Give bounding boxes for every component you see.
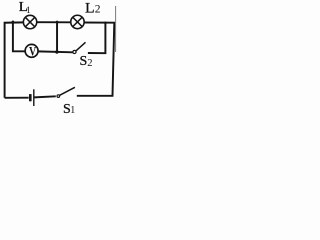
lamp L1 — [23, 15, 36, 28]
svg-text:S: S — [80, 54, 88, 69]
wire: middle vertical from top wire to junction — [56, 22, 58, 52]
wire: top middle between L1 and L2 — [36, 21, 71, 23]
battery cell — [30, 89, 34, 106]
lamp L2 — [71, 15, 84, 28]
node B junction dot (mid vertical on top wire) — [56, 21, 59, 24]
wire: voltmeter right to S2 contact — [38, 50, 73, 53]
label S1 — [63, 102, 75, 117]
svg-text:V: V — [29, 43, 37, 58]
switch S1 — [57, 87, 75, 97]
svg-text:1: 1 — [26, 6, 31, 16]
voltmeter V — [25, 43, 38, 58]
svg-text:2: 2 — [87, 58, 92, 69]
label L2 — [85, 0, 101, 16]
label S2 — [80, 54, 93, 69]
wire: bottom left to battery — [5, 97, 29, 99]
svg-text:L: L — [85, 0, 95, 16]
node C junction dot (voltmeter row) — [55, 50, 58, 53]
svg-text:2: 2 — [95, 4, 101, 16]
wire: voltmeter branch from top wire down and right — [13, 22, 26, 51]
node D junction dot (S2 branch on top wire) — [104, 22, 107, 25]
node A junction dot (voltmeter branch on top wire) — [12, 21, 15, 24]
wire: top right from L2 to corner, down right side, bottom right to S1 — [77, 23, 115, 96]
scan ghost line right edge — [115, 6, 117, 52]
label L1 — [19, 0, 31, 16]
svg-text:1: 1 — [70, 105, 75, 116]
switch S2 — [73, 42, 86, 53]
wire: S2 right contact up to top wire — [88, 23, 106, 54]
background — [0, 0, 117, 117]
wire: battery to switch S1 — [34, 96, 56, 97]
wire: left side + top-left segment to L1 — [5, 22, 24, 97]
